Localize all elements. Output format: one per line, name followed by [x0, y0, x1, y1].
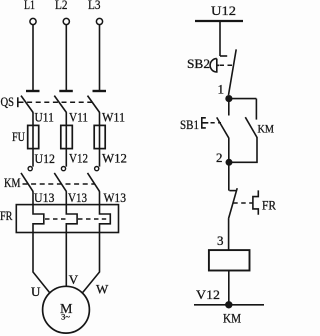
- FR contact fixed tick: [229, 190, 236, 192]
- terminal L1: [30, 18, 36, 24]
- svg-text:U: U: [31, 284, 41, 299]
- wire U12 to SB2: [219, 22, 221, 56]
- wire FR to coil: [228, 218, 230, 250]
- wire SB1 to node 2: [228, 138, 230, 163]
- wire QS pole3 to KM pole3 (through fuse): [99, 112, 101, 166]
- FR linkage dashed line segment 2: [78, 218, 99, 220]
- svg-text:FU: FU: [12, 129, 25, 144]
- SB1 blade (NO): [217, 117, 229, 137]
- FR heater element pole 2 with wire from KM pole 2: [66, 191, 77, 232]
- svg-text:FR: FR: [0, 208, 13, 223]
- terminal line V12: [194, 304, 264, 306]
- SB2 fixed contact tick: [220, 55, 227, 57]
- FR enclosure box: [16, 205, 118, 233]
- QS pole 3 fixed contact: [93, 90, 107, 92]
- fuse FU pole 2: [61, 125, 73, 148]
- KM pole 3 blade: [88, 173, 100, 192]
- KM linkage dashed line: [23, 183, 96, 185]
- svg-text:V12: V12: [69, 151, 88, 166]
- wire branch corner down to KM aux contact: [255, 99, 257, 120]
- FR contact blade (NC): [229, 188, 238, 218]
- KM pole 3 fixed contact circle: [95, 167, 99, 171]
- QS pole 2 blade: [54, 96, 66, 113]
- wire KM aux to node2 branch: [229, 137, 257, 162]
- wire FR pole 1 to motor U: [33, 233, 50, 293]
- svg-text:L1: L1: [24, 0, 35, 12]
- FR linkage dashed line segment 1: [45, 218, 66, 220]
- svg-text:V12: V12: [196, 287, 220, 302]
- svg-text:U11: U11: [35, 110, 54, 125]
- KM pole 1 blade: [21, 173, 33, 192]
- svg-text:U12: U12: [211, 3, 236, 18]
- FR heater element pole 1 with wire from KM pole 1: [33, 191, 44, 232]
- wire FR pole 3 to motor W: [83, 233, 100, 293]
- SB1 actuator bracket: [202, 118, 209, 128]
- QS pole 3 blade: [88, 96, 100, 113]
- svg-text:3~: 3~: [61, 311, 70, 321]
- wire node1 to branch corner: [229, 98, 257, 100]
- svg-text:U13: U13: [34, 190, 55, 205]
- fuse FU pole 3: [94, 125, 105, 148]
- wire L1 to QS pole 1: [32, 25, 34, 90]
- svg-text:3: 3: [217, 233, 224, 248]
- SB2 blade (NC): [229, 49, 237, 95]
- svg-text:FR: FR: [262, 198, 276, 213]
- svg-text:V11: V11: [69, 110, 88, 125]
- node 1 junction dot: [226, 96, 232, 102]
- junction dot at V12: [226, 302, 232, 308]
- KM auxiliary contact blade: [245, 117, 257, 137]
- wire QS pole2 to KM pole2 (through fuse): [65, 112, 67, 166]
- SB2 mushroom actuator: [210, 59, 219, 72]
- contactor coil KM: [209, 250, 250, 270]
- svg-text:W13: W13: [104, 190, 127, 205]
- FR heater element pole 3 with wire from KM pole 3: [100, 191, 111, 232]
- terminal bar U12: [195, 20, 243, 22]
- QS linkage handle: [17, 97, 19, 107]
- svg-text:U12: U12: [35, 151, 56, 166]
- svg-text:SB2: SB2: [187, 56, 210, 71]
- FR actuator dashed link: [233, 202, 253, 204]
- QS linkage dashed line: [19, 101, 95, 103]
- svg-text:V: V: [69, 272, 79, 287]
- svg-text:KM: KM: [223, 311, 241, 326]
- svg-text:KM: KM: [4, 175, 21, 190]
- KM pole 1 fixed contact circle: [28, 167, 32, 171]
- QS pole 1 fixed contact: [26, 90, 40, 92]
- svg-text:L2: L2: [55, 0, 68, 12]
- QS pole 2 fixed contact: [59, 90, 73, 92]
- svg-text:L3: L3: [88, 0, 101, 12]
- svg-text:KM: KM: [258, 122, 275, 136]
- terminal L2: [63, 18, 69, 24]
- KM pole 2 fixed contact circle: [61, 167, 65, 171]
- wire QS pole1 to KM pole1 (through fuse): [32, 112, 34, 166]
- svg-text:SB1: SB1: [180, 117, 199, 132]
- svg-text:2: 2: [216, 150, 223, 165]
- fuse FU pole 1: [28, 125, 39, 148]
- svg-text:W11: W11: [102, 110, 125, 125]
- svg-text:W: W: [96, 282, 109, 297]
- wire FR pole 2 to motor V: [65, 233, 67, 287]
- wire node1 down to SB1: [228, 99, 230, 116]
- KM pole 2 blade: [54, 173, 66, 192]
- svg-text:1: 1: [218, 82, 225, 97]
- wire L3 to QS pole 3: [99, 25, 101, 90]
- svg-text:V13: V13: [68, 190, 87, 205]
- wire L2 to QS pole 2: [65, 25, 67, 90]
- svg-text:QS: QS: [1, 94, 15, 109]
- wire coil to V12: [228, 271, 230, 305]
- SB2 actuator dashed link: [220, 64, 234, 66]
- wire node 2 to FR contact: [228, 162, 230, 190]
- SB1 actuator dashed link: [211, 122, 222, 124]
- terminal L3: [96, 18, 102, 24]
- svg-text:W12: W12: [102, 151, 127, 166]
- node 2 junction dot: [226, 160, 231, 165]
- QS pole 1 blade: [21, 96, 33, 113]
- motor M 3-phase: [43, 286, 90, 333]
- FR linkage dash inside pole 3 element: [102, 218, 106, 220]
- FR actuator bracket: [253, 190, 258, 214]
